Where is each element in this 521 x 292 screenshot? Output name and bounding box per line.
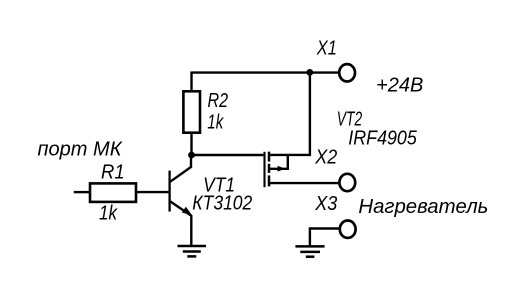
svg-text:1k: 1k bbox=[99, 203, 118, 225]
svg-text:R1: R1 bbox=[101, 161, 125, 183]
svg-text:порт МК: порт МК bbox=[38, 138, 123, 160]
svg-text:Нагреватель: Нагреватель bbox=[358, 196, 488, 218]
svg-text:X2: X2 bbox=[314, 147, 337, 169]
svg-text:IRF4905: IRF4905 bbox=[348, 128, 417, 150]
svg-text:X3: X3 bbox=[314, 193, 337, 215]
svg-text:+24В: +24В bbox=[376, 75, 423, 97]
svg-text:R2: R2 bbox=[208, 90, 229, 112]
svg-text:X1: X1 bbox=[316, 38, 337, 60]
svg-text:КТ3102: КТ3102 bbox=[192, 193, 252, 215]
svg-text:1k: 1k bbox=[207, 112, 224, 134]
